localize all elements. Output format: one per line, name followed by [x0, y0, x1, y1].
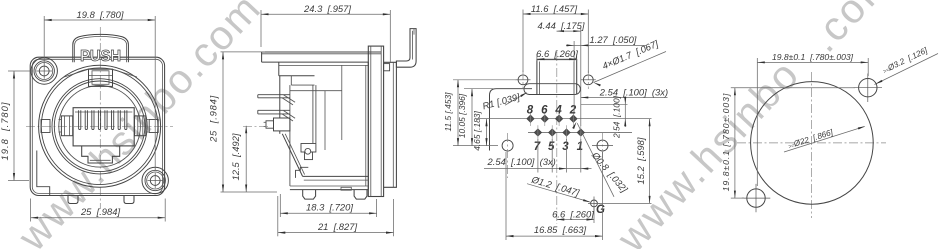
view3 right post hole: [597, 140, 608, 151]
view4 vertical centerline: [811, 72, 813, 218]
view2 bottom line a: [303, 175, 369, 177]
view1 left foot tab: [68, 196, 78, 204]
view3 top-right hole 1.7: [583, 75, 593, 85]
view3 dim 6.6 [.260] bottom: [593, 207, 595, 223]
svg-text:19.8 [.780]: 19.8 [.780]: [77, 9, 124, 20]
view4 dim 19.8+-0.1 left: [731, 87, 855, 89]
view3 pin pad 4: [556, 115, 563, 122]
svg-text:5: 5: [548, 141, 555, 153]
view3 dim 15.2 [.598] right: [594, 202, 652, 204]
svg-text:10.05 [.396]: 10.05 [.396]: [457, 93, 467, 138]
view3 label dia 0.8 [.032]: [577, 123, 614, 197]
svg-text:4.65 [.183]: 4.65 [.183]: [472, 111, 482, 151]
view2 sloped bottom edge: [282, 134, 302, 177]
view2 step2: [290, 76, 292, 85]
view3 footprint outline: [490, 89, 533, 151]
view2 side boss outer: [274, 118, 290, 131]
view2 PUSH arm side profile: [396, 29, 416, 68]
svg-text:19.8±0.1 [.780±.003]: 19.8±0.1 [.780±.003]: [772, 52, 854, 62]
view1 latch neck inner: [92, 71, 109, 85]
view1 bayonet ring outer inner line: [41, 68, 158, 185]
view1 square mounting flange outer: [30, 57, 164, 195]
svg-text:1: 1: [577, 141, 583, 153]
svg-text:19.8 [.780]: 19.8 [.780]: [0, 102, 10, 161]
view1 left bayonet key: [41, 120, 50, 133]
view1 right foot tab: [124, 196, 134, 204]
view3 dim 2.54 [.100] (3x) top right: [581, 97, 668, 99]
view1 right bayonet key: [149, 120, 158, 133]
svg-text:2.54 [.100] (3x): 2.54 [.100] (3x): [487, 156, 556, 167]
view3 pin pad 1: [577, 129, 584, 136]
view2 left wall upper: [279, 76, 281, 118]
view2 jack block top line: [290, 90, 342, 92]
svg-text:PUSH: PUSH: [80, 48, 121, 65]
view2 dim 21 [.827] bottom: [277, 196, 279, 236]
view2 jack wall a: [312, 85, 314, 143]
view2 bottom edge: [290, 189, 368, 191]
view3 shield pad hole 1.2 with G label: [591, 200, 598, 207]
view4 top-right hole 3.2: [859, 79, 877, 97]
view1 jack latch slot steps: [82, 146, 120, 163]
svg-text:25 [.984]: 25 [.984]: [80, 206, 120, 217]
svg-text:4.44 [.175]: 4.44 [.175]: [538, 20, 585, 31]
view2 right foot: [354, 190, 367, 200]
view1 PUSH tab inner: [75, 37, 127, 63]
view2 front barrel: [384, 62, 397, 187]
view2 body inner right line: [365, 65, 367, 186]
view3 dim 11.6 [.457]: [522, 10, 524, 73]
svg-text:11.6 [.457]: 11.6 [.457]: [531, 3, 578, 14]
view2 step down left: [278, 62, 280, 76]
svg-text:18.3 [.720]: 18.3 [.720]: [306, 202, 353, 213]
view4 horizontal centerline: [737, 142, 886, 144]
view2 dim 12.5 [.492] left: [243, 125, 268, 127]
svg-text:2.54 [.100] (3x): 2.54 [.100] (3x): [599, 86, 668, 97]
view3 dim 4.44 [.175]: [557, 30, 581, 32]
svg-text:21 [.827]: 21 [.827]: [317, 221, 357, 232]
view3 dim 4.65 [.183] left: [476, 118, 521, 120]
view2 dim 24.3 [.957] top: [260, 10, 262, 47]
view1 bottom-left corner step pocket: [37, 151, 50, 196]
view3 label R1 [.039]: [505, 93, 527, 105]
svg-text:6.6 [.260]: 6.6 [.260]: [552, 209, 594, 220]
view2 panel flange plate: [368, 46, 383, 196]
view2 arm pivot bump: [384, 64, 390, 71]
view3 dim 2.54 vertical right: [581, 103, 628, 105]
view1 latch neck crossline: [89, 75, 113, 77]
svg-text:7: 7: [534, 141, 541, 153]
svg-text:1.27 [.050]: 1.27 [.050]: [590, 34, 637, 45]
svg-text:19.8±0.1 [.780±.003]: 19.8±0.1 [.780±.003]: [721, 93, 731, 192]
view3 pin pad 6: [541, 115, 548, 122]
view1 bayonet ring outer: [39, 65, 161, 187]
view3 dim 16.85 [.663] bottom: [505, 152, 507, 240]
view3 jack nose rect: [537, 60, 577, 95]
view2 lower solder pin: [258, 110, 290, 114]
svg-text:6: 6: [541, 105, 548, 117]
view1 horizontal centerline: [26, 125, 173, 127]
view3 pin pad 7: [534, 129, 541, 136]
view3 dim 6.6 [.260] top: [536, 54, 538, 61]
view3 label 4x dia 1.7 [.067]: [594, 52, 667, 83]
view1 latch neck outer: [89, 69, 113, 86]
view2 inner divider: [341, 65, 343, 140]
view3 pin pad 2: [570, 115, 577, 122]
view1 latch left wing line: [64, 69, 89, 77]
view1 mid ring inner: [54, 81, 145, 172]
view1 jack inner top line: [75, 111, 132, 113]
view3 top-left hole 1.7: [518, 75, 528, 85]
view1 top-left screw lug: [31, 58, 57, 84]
view2 inner wall: [289, 85, 291, 186]
view1 8 jack contacts: [79, 110, 81, 129]
view2 upper solder pin: [258, 95, 290, 98]
svg-text:3: 3: [562, 141, 569, 153]
view3 dim 2.54 [.100] (3x) bottom: [537, 139, 539, 173]
view3 oblong slot R1: [524, 84, 580, 95]
view3 pin pad 3: [563, 129, 570, 136]
view2 body right edge: [367, 62, 369, 190]
view2 lower-left step: [296, 167, 309, 178]
view1 left jack wing: [61, 116, 72, 136]
svg-text:G: G: [596, 204, 605, 216]
view1 mid ring: [52, 79, 147, 174]
view4 bottom-left hole 3.2: [747, 189, 765, 207]
view1 right jack wing: [135, 116, 146, 136]
view1 recess circle: [59, 86, 141, 168]
view3 jack nose inner right: [573, 62, 575, 95]
svg-text:12.5 [.492]: 12.5 [.492]: [230, 133, 241, 180]
view3 dim 1.27 [.050]: [573, 41, 575, 112]
view2 top plate top edge: [262, 51, 382, 53]
view2 top plate bottom edge: [262, 61, 369, 63]
svg-text:24.3 [.957]: 24.3 [.957]: [303, 3, 351, 14]
view1 dim 19.8 [.780] vertical left: [8, 70, 33, 72]
view4 main cutout circle dia22: [751, 82, 874, 205]
view4 label 2x dia3.2 [.126]: [875, 54, 939, 85]
view1 vertical centerline: [99, 27, 101, 209]
view1 dim 25 [.984] bottom: [30, 199, 32, 222]
view2 dim 25 [.984] left: [221, 51, 266, 53]
view1 flange inner outline: [32, 59, 162, 193]
view3 top pin row line: [478, 118, 652, 120]
svg-text:2.54 [.100]: 2.54 [.100]: [612, 95, 622, 139]
svg-text:2: 2: [569, 105, 577, 117]
svg-text:25 [.984]: 25 [.984]: [207, 95, 218, 143]
svg-text:11.5 [.453]: 11.5 [.453]: [443, 92, 453, 132]
view2 bottom line b: [304, 179, 369, 181]
view2 left wall lower: [279, 131, 281, 134]
view2 side boss tip: [266, 121, 274, 128]
view2 latch hook detail: [301, 144, 316, 153]
view1 latch slot inner line: [90, 159, 111, 161]
view3 pin pad 5: [549, 129, 556, 136]
view2 bottom line c: [290, 185, 368, 187]
view1 PUSH tab outer: [73, 34, 129, 62]
view2 dim 18.3 [.720] bottom: [279, 194, 281, 217]
view2 left foot: [303, 190, 316, 200]
svg-text:6.6 [.260]: 6.6 [.260]: [536, 48, 578, 59]
view1 latch right wing line: [113, 69, 138, 77]
view2 jack wall b: [315, 85, 317, 143]
view3 pin pad 8: [527, 115, 534, 122]
view4 label dia22 [.866]: [784, 127, 865, 153]
svg-text:8: 8: [527, 105, 534, 117]
view1 bottom-right screw lug: [142, 167, 168, 193]
view3 dim 10.05 [.396] left: [464, 88, 532, 90]
svg-text:16.85 [.663]: 16.85 [.663]: [534, 224, 587, 235]
view4 dim 19.8+-0.1 top: [756, 58, 758, 186]
view2 second plate line: [279, 64, 369, 66]
view1 RJ45 jack opening: [73, 108, 134, 146]
svg-text:15.2 [.598]: 15.2 [.598]: [635, 137, 646, 184]
view3 dim 11.5 [.453] left: [453, 79, 516, 81]
view2 small mark: [341, 187, 351, 190]
view3 vertical centerline: [556, 52, 558, 224]
view3 bottom pin row line: [528, 132, 632, 134]
view3 jack nose inner left: [539, 62, 541, 95]
view2 jack block right line: [324, 91, 326, 150]
svg-text:4: 4: [554, 105, 562, 117]
view3 left post hole: [502, 140, 513, 151]
view1 dim 19.8 [.780] horizontal top: [43, 16, 45, 64]
view3 label dia 1.2 [.047]: [527, 184, 590, 202]
